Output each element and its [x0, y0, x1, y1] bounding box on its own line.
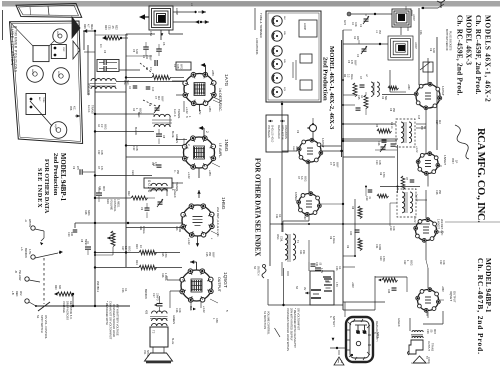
svg-text:170: 170	[332, 162, 335, 167]
svg-text:+1.4V.: +1.4V.	[415, 146, 418, 153]
svg-text:MFD: MFD	[433, 329, 435, 334]
svg-text:WHITE: WHITE	[28, 219, 31, 227]
svg-text:C15: C15	[357, 95, 360, 100]
svg-text:CONTROL: CONTROL	[113, 199, 117, 212]
svg-text:C17: C17	[435, 120, 438, 125]
svg-text:1 MEG: 1 MEG	[332, 236, 335, 244]
svg-text:ANT.: ANT.	[343, 20, 346, 26]
svg-text:+1.4V.: +1.4V.	[187, 238, 190, 245]
svg-text:VOLTAGES SHOULD HOLD WITHIN: VOLTAGES SHOULD HOLD WITHIN	[286, 308, 290, 351]
svg-text:COIL: COIL	[280, 236, 283, 242]
svg-text:2nd Production: 2nd Production	[322, 57, 329, 101]
svg-text:1A7G: 1A7G	[223, 74, 229, 87]
svg-text:MEG: MEG	[127, 246, 130, 252]
svg-text:2nd DET. AVC: 2nd DET. AVC	[440, 219, 444, 236]
svg-text:C4: C4	[99, 44, 103, 48]
svg-text:MFD: MFD	[102, 186, 104, 191]
svg-text:1P: 1P	[455, 160, 459, 163]
svg-text:0.01: 0.01	[178, 308, 181, 313]
svg-text:1 MEG: 1 MEG	[142, 226, 145, 234]
svg-text:R22: R22	[115, 25, 118, 30]
svg-text:C20: C20	[349, 231, 351, 236]
svg-text:C18: C18	[417, 115, 419, 120]
svg-text:C10: C10	[67, 232, 70, 237]
svg-text:MMF: MMF	[160, 96, 163, 102]
svg-text:MEG: MEG	[103, 124, 106, 130]
svg-text:OUTPUT: OUTPUT	[453, 291, 457, 303]
svg-text:+65V.: +65V.	[211, 70, 214, 77]
svg-text:1st I.F.: 1st I.F.	[87, 105, 91, 113]
svg-text:SEE INDEX: SEE INDEX	[36, 168, 43, 208]
svg-text:1A7GT: 1A7GT	[321, 138, 325, 148]
svg-text:C10: C10	[151, 87, 153, 92]
svg-text:MMF: MMF	[335, 162, 338, 168]
svg-text:T2: T2	[152, 330, 156, 334]
svg-text:BLUE: BLUE	[171, 131, 174, 138]
svg-text:I.F. AMPL.: I.F. AMPL.	[218, 143, 222, 158]
svg-text:140: 140	[145, 55, 148, 60]
svg-text:300: 300	[58, 285, 61, 290]
svg-text:3Q5GT: 3Q5GT	[449, 291, 453, 301]
svg-text:PLUG SOCKETS: PLUG SOCKETS	[449, 31, 452, 51]
svg-text:VOLTAGE: VOLTAGE	[62, 301, 66, 313]
svg-text:C23: C23	[121, 288, 124, 293]
svg-text:100: 100	[70, 232, 73, 237]
svg-text:C31: C31	[108, 25, 111, 30]
svg-text:LOCATIONS: LOCATIONS	[255, 38, 259, 55]
svg-text:OSC: OSC	[292, 146, 294, 151]
svg-text:GREEN: GREEN	[397, 318, 400, 327]
svg-text:C13: C13	[175, 226, 178, 231]
svg-text:R14: R14	[299, 250, 302, 255]
svg-text:R14: R14	[135, 260, 138, 265]
svg-text:1A7GT: 1A7GT	[441, 86, 445, 96]
svg-text:BROWN: BROWN	[144, 289, 147, 299]
svg-text:DROP ACROSS: DROP ACROSS	[66, 301, 70, 320]
svg-text:+1.4V.: +1.4V.	[202, 306, 205, 313]
svg-text:1Q5GT: 1Q5GT	[54, 124, 56, 132]
svg-text:SPST SWITCH: SPST SWITCH	[40, 315, 44, 333]
svg-text:LOOP: LOOP	[412, 14, 415, 21]
svg-text:R16: R16	[161, 273, 164, 278]
svg-text:LOOP: LOOP	[303, 23, 306, 30]
svg-text:10MFD: 10MFD	[156, 293, 158, 301]
svg-text:0.01: 0.01	[354, 22, 357, 27]
svg-text:VOLUME CONTROL: VOLUME CONTROL	[267, 311, 270, 335]
svg-text:1N5G: 1N5G	[56, 31, 58, 37]
svg-text:C11: C11	[275, 214, 278, 219]
svg-text:R11: R11	[139, 226, 142, 231]
svg-text:1N5GT: 1N5GT	[443, 155, 447, 165]
svg-text:C15: C15	[205, 252, 208, 257]
svg-text:ON VOL. CONTROL: ON VOL. CONTROL	[44, 315, 48, 339]
svg-text:456: 456	[69, 106, 73, 111]
svg-text:SHOULD HOLD: SHOULD HOLD	[271, 125, 274, 143]
svg-text:.05: .05	[111, 25, 114, 29]
svg-text:MEASURED: MEASURED	[277, 125, 280, 139]
svg-text:47K: 47K	[154, 162, 157, 167]
svg-text:BLUE: BLUE	[171, 338, 174, 345]
svg-text:0.05: 0.05	[100, 150, 103, 155]
svg-text:0.05: 0.05	[135, 146, 138, 151]
svg-text:1Q5GT: 1Q5GT	[222, 272, 228, 288]
svg-text:+45V.: +45V.	[208, 106, 211, 113]
svg-text:TUBE & TRIMMER: TUBE & TRIMMER	[259, 13, 263, 38]
svg-text:3-30: 3-30	[135, 49, 138, 54]
svg-text:Ch. RC-459E, 2nd Prod.: Ch. RC-459E, 2nd Prod.	[456, 15, 464, 96]
svg-text:C16: C16	[377, 141, 380, 146]
svg-text:R26: R26	[83, 24, 86, 29]
svg-text:0.05: 0.05	[378, 160, 381, 165]
svg-text:* MEASURED WITH CHANALYST: * MEASURED WITH CHANALYST	[293, 308, 297, 348]
svg-text:2nd Production: 2nd Production	[52, 153, 59, 196]
svg-text:BOTTOM VIEW OF: BOTTOM VIEW OF	[445, 29, 448, 51]
svg-text:110: 110	[157, 96, 160, 100]
svg-text:VOLTAGES SHOULD HOLD: VOLTAGES SHOULD HOLD	[112, 304, 116, 337]
svg-text:+45V.: +45V.	[303, 214, 306, 220]
svg-text:C19: C19	[365, 196, 368, 201]
svg-text:RED: RED	[131, 170, 134, 175]
svg-text:R13: R13	[135, 244, 138, 249]
svg-text:C22: C22	[439, 260, 442, 265]
svg-text:3-30: 3-30	[432, 48, 435, 53]
svg-text:470K: 470K	[382, 256, 385, 262]
svg-text:250: 250	[438, 190, 441, 195]
svg-text:MEG: MEG	[138, 108, 141, 114]
svg-text:C16: C16	[175, 308, 178, 313]
svg-text:+1.4V.: +1.4V.	[185, 107, 188, 114]
svg-text:R12: R12	[403, 260, 406, 265]
svg-text:0.8V.: 0.8V.	[215, 318, 218, 324]
svg-text:170: 170	[350, 60, 353, 65]
svg-text:47K: 47K	[100, 166, 103, 171]
svg-text:3V: 3V	[303, 287, 307, 290]
svg-text:0.05: 0.05	[176, 64, 179, 69]
svg-text:15K: 15K	[302, 250, 305, 255]
svg-text:+65V.: +65V.	[407, 84, 410, 90]
svg-text:OUTPUT: OUTPUT	[217, 277, 221, 293]
svg-text:MEG: MEG	[90, 24, 93, 30]
svg-text:4.7: 4.7	[87, 24, 90, 28]
svg-text:MODEL 46X-3: MODEL 46X-3	[465, 15, 473, 65]
svg-text:R10: R10	[379, 256, 382, 261]
svg-text:MMF: MMF	[353, 60, 356, 66]
svg-text:TRANS: TRANS	[431, 343, 434, 352]
svg-text:C5A: C5A	[149, 31, 153, 36]
svg-text:MEG: MEG	[409, 260, 412, 266]
svg-text:330K: 330K	[87, 210, 90, 216]
svg-text:C22: C22	[97, 150, 100, 155]
svg-text:+B: +B	[11, 291, 15, 295]
svg-text:-B: -B	[14, 270, 18, 273]
svg-text:1 MEG.: 1 MEG.	[117, 199, 121, 208]
svg-text:BATTERY: BATTERY	[332, 316, 335, 327]
svg-text:RED: RED	[15, 291, 18, 296]
svg-text:C6: C6	[162, 42, 166, 46]
svg-text:BROWN: BROWN	[24, 248, 27, 258]
svg-text:1.5V.: 1.5V.	[28, 249, 31, 255]
svg-text:250: 250	[208, 252, 211, 257]
svg-text:GREEN: GREEN	[172, 315, 175, 324]
svg-text:1H5G: 1H5G	[57, 71, 59, 77]
svg-text:R19: R19	[106, 199, 110, 204]
svg-text:1st I.F.: 1st I.F.	[390, 122, 393, 129]
svg-text:250: 250	[176, 170, 179, 175]
svg-text:TUBE LOCATION: TUBE LOCATION	[10, 26, 14, 66]
svg-text:1 MEG: 1 MEG	[164, 273, 167, 281]
svg-text:KC.: KC.	[73, 106, 77, 111]
svg-text:BATT.: BATT.	[376, 332, 379, 339]
svg-text:2nd DET.,A.F.,& A.V.C.: 2nd DET.,A.F.,& A.V.C.	[216, 207, 220, 237]
svg-text:* MEASURED WITH: * MEASURED WITH	[105, 301, 109, 325]
svg-text:VOLUME: VOLUME	[110, 199, 114, 210]
svg-text:OSC: OSC	[62, 47, 64, 52]
svg-text:C18: C18	[435, 190, 438, 195]
svg-text:PRI: PRI	[378, 30, 381, 34]
svg-text:0.01: 0.01	[442, 260, 445, 265]
svg-text:C26: C26	[426, 329, 429, 334]
svg-text:& TRIMMER POSITIONS: & TRIMMER POSITIONS	[14, 26, 18, 73]
svg-text:1N5GT: 1N5GT	[294, 192, 298, 202]
svg-text:470K: 470K	[164, 252, 167, 258]
svg-text:SPKR: SPKR	[146, 350, 149, 357]
svg-text:C2A: C2A	[419, 30, 422, 35]
svg-text:C11: C11	[98, 186, 101, 191]
svg-text:+85V.: +85V.	[441, 286, 444, 292]
svg-text:0.01: 0.01	[392, 226, 395, 231]
svg-text:+45V.: +45V.	[208, 170, 211, 177]
svg-text:GREEN: GREEN	[175, 134, 178, 143]
svg-text:1H5GT: 1H5GT	[437, 219, 441, 229]
svg-text:#94788-1: #94788-1	[96, 281, 100, 293]
svg-text:C24: C24	[387, 289, 389, 294]
svg-text:R18: R18	[84, 210, 87, 215]
svg-text:OSC.: OSC.	[276, 234, 279, 240]
svg-text:470K: 470K	[382, 172, 385, 178]
svg-text:BLK: BLK	[189, 306, 192, 311]
svg-text:OR VOLTOHMYST: OR VOLTOHMYST	[297, 308, 301, 331]
svg-text:TRANS.: TRANS.	[177, 109, 181, 119]
svg-text:S1: S1	[36, 315, 40, 319]
svg-text:Ch. RC-459F, 2nd Prod.: Ch. RC-459F, 2nd Prod.	[474, 15, 482, 95]
svg-text:C23: C23	[335, 266, 338, 271]
svg-text:R12: R12	[127, 191, 130, 196]
svg-text:-A: -A	[24, 219, 28, 222]
svg-text:R17: R17	[121, 246, 124, 251]
svg-text:MMF: MMF	[148, 55, 151, 61]
svg-text:2nd I.F.: 2nd I.F.	[415, 194, 418, 202]
svg-text:22K: 22K	[356, 36, 359, 41]
svg-text:+1.4V.: +1.4V.	[187, 172, 190, 179]
svg-text:ANT.: ANT.	[38, 97, 41, 102]
svg-text:250: 250	[392, 108, 395, 113]
svg-text:YELLOW: YELLOW	[18, 270, 21, 281]
svg-text:S1 SWITCH ON: S1 SWITCH ON	[263, 311, 266, 329]
svg-text:0.006: 0.006	[178, 226, 181, 233]
svg-text:0.006: 0.006	[378, 244, 381, 251]
svg-text:TRIM: TRIM	[42, 97, 44, 103]
svg-text:R23: R23	[104, 25, 107, 30]
svg-text:RCA MFG. CO., INC.: RCA MFG. CO., INC.	[475, 128, 486, 223]
svg-text:MEG: MEG	[350, 74, 353, 80]
svg-text:MODEL 94BP-1: MODEL 94BP-1	[59, 153, 66, 202]
svg-text:R15: R15	[161, 252, 164, 257]
svg-text:Ch. RC-407B, 2nd Prod.: Ch. RC-407B, 2nd Prod.	[476, 258, 485, 355]
svg-text:TRANS: TRANS	[91, 105, 95, 114]
svg-text:C-: C-	[173, 170, 176, 173]
svg-text:20% WITH RATED SUPPLY: 20% WITH RATED SUPPLY	[290, 308, 294, 341]
svg-text:56K: 56K	[384, 96, 387, 101]
svg-text:MMF: MMF	[211, 252, 214, 258]
svg-text:1A7G: 1A7G	[31, 69, 34, 75]
svg-text:+1.4V.: +1.4V.	[413, 216, 416, 223]
svg-text:GREEN: GREEN	[173, 189, 176, 198]
svg-text:RESISTOR 6 V.: RESISTOR 6 V.	[69, 301, 73, 320]
svg-text:1N5G: 1N5G	[223, 139, 229, 152]
svg-text:VOLTAGES: VOLTAGES	[267, 125, 270, 138]
svg-text:OSC: OSC	[123, 80, 126, 85]
svg-text:1st I.F.: 1st I.F.	[173, 109, 177, 117]
svg-text:SEC.: SEC.	[126, 80, 129, 86]
svg-text:C12: C12	[132, 146, 135, 151]
svg-text:1.5V.: 1.5V.	[335, 282, 337, 288]
svg-text:P.M.: P.M.	[143, 350, 146, 355]
svg-text:MODELS 46X-1, 46X-2: MODELS 46X-1, 46X-2	[484, 15, 492, 103]
svg-text:WITH BATTERY VOLTAGE: WITH BATTERY VOLTAGE	[116, 304, 120, 336]
svg-text:5MMF: 5MMF	[84, 239, 86, 246]
svg-text:OUTPUT: OUTPUT	[427, 341, 430, 351]
svg-text:90V.: 90V.	[19, 291, 22, 296]
svg-text:R20: R20	[54, 285, 57, 290]
svg-text:C19: C19	[389, 226, 392, 231]
svg-text:LOOP: LOOP	[414, 42, 417, 49]
svg-text:CHANALYST OR VOLTOHMYST: CHANALYST OR VOLTOHMYST	[109, 301, 113, 340]
svg-text:SWITCH: SWITCH	[257, 266, 260, 276]
svg-text:C21: C21	[375, 244, 378, 249]
svg-text:FOR OTHER DATA SEE INDEX: FOR OTHER DATA SEE INDEX	[254, 158, 261, 256]
svg-text:425: 425	[145, 310, 148, 315]
svg-text:+A: +A	[20, 247, 24, 251]
svg-text:OPERATION: OPERATION	[284, 125, 287, 139]
svg-text:+90V.: +90V.	[351, 282, 354, 288]
svg-text:C17: C17	[152, 293, 155, 298]
svg-text:MEG: MEG	[303, 176, 306, 182]
svg-text:MFD: MFD	[179, 64, 182, 69]
svg-text:LOOP: LOOP	[175, 8, 178, 15]
svg-text:4547: 4547	[451, 158, 455, 164]
svg-text:C10: C10	[375, 160, 378, 165]
svg-text:2: 2	[205, 131, 209, 133]
svg-text:110: 110	[438, 120, 441, 124]
